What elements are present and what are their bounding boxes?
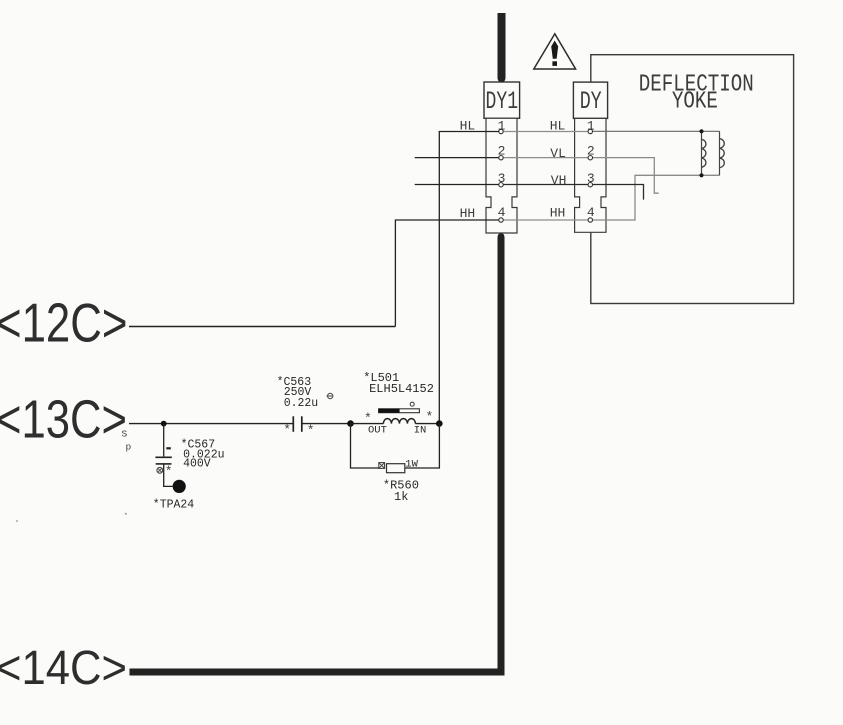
- node label 12C: [0, 291, 128, 353]
- svg-text:*: *: [283, 423, 291, 438]
- wire R560 branch: [351, 424, 440, 468]
- svg-text:OUT: OUT: [368, 425, 387, 437]
- wire HL from DY1 pin1 down to L501 IN: [439, 132, 501, 424]
- wire VH stub left of DY1: [415, 184, 501, 186]
- DY1 pin 4: [498, 205, 506, 222]
- DY pin 3: [587, 171, 595, 187]
- svg-text:VH: VH: [551, 173, 567, 188]
- label VH left of DY: [551, 173, 567, 188]
- DY1 pin 3: [498, 171, 506, 187]
- inductor L501: [351, 402, 420, 423]
- svg-text:ELH5L4152: ELH5L4152: [369, 382, 434, 396]
- DY1 pin 2: [498, 144, 506, 160]
- label HH left of DY: [550, 205, 566, 220]
- capacitor C567: [155, 448, 172, 479]
- svg-text:S: S: [122, 429, 128, 440]
- warning symbol: [534, 34, 576, 69]
- DY pin 4: [587, 205, 595, 222]
- svg-text:DY1: DY1: [486, 87, 519, 116]
- wire VL stub left of DY1: [415, 157, 501, 159]
- capacitor C563: [283, 416, 314, 438]
- node junction L501 IN / HL: [436, 420, 443, 427]
- wire HH from DY1 pin4 down to 12C: [395, 220, 501, 327]
- label VL left of DY: [550, 146, 566, 161]
- svg-text:1W: 1W: [405, 458, 418, 470]
- svg-text:*: *: [307, 423, 315, 438]
- svg-text:*: *: [364, 411, 372, 426]
- svg-text:400V: 400V: [183, 458, 211, 471]
- polarity symbol near C563: [327, 393, 334, 398]
- svg-text:VL: VL: [550, 146, 566, 161]
- label TPA24: [153, 499, 195, 512]
- node label 13C: [0, 391, 127, 450]
- svg-text:YOKE: YOKE: [672, 89, 718, 116]
- svg-text:<13C>: <13C>: [0, 391, 127, 450]
- label DEFLECTION YOKE: [639, 72, 754, 116]
- node label 14C: [0, 641, 127, 695]
- wire row4 HH: DY1 pin4 to DY pin4: [501, 219, 590, 221]
- wire 12C: [129, 326, 395, 328]
- bus thick wire top (to DY1): [498, 13, 506, 82]
- test point TPA24: [173, 480, 186, 493]
- wire C567 branch: [164, 424, 173, 487]
- wire yoke coils bottom to DY pin4 (HH): [590, 175, 719, 220]
- label C563 values: [277, 376, 319, 410]
- wire row2 VL: DY1 pin2 to DY pin2: [501, 157, 590, 159]
- svg-text:DY: DY: [580, 87, 602, 116]
- DY1 pin 1: [498, 119, 506, 134]
- resistor R560: [379, 463, 405, 473]
- svg-text:HL: HL: [460, 118, 476, 133]
- connector DY1 body: [484, 82, 520, 233]
- svg-text:p: p: [126, 442, 132, 453]
- yoke coil right: [720, 131, 725, 175]
- svg-text:HH: HH: [460, 206, 476, 221]
- wire 13C main: [129, 423, 439, 425]
- label L501: [363, 371, 434, 437]
- bus 14C thick wire: [130, 233, 505, 672]
- svg-text:HH: HH: [550, 205, 566, 220]
- wire row3 VH: DY1 pin3 to DY pin3: [501, 184, 590, 186]
- svg-text:<12C>: <12C>: [0, 291, 128, 353]
- label C567 values: [181, 439, 225, 471]
- label R560: [383, 458, 419, 504]
- wire DY pin2 stub with hook (VL): [590, 158, 658, 194]
- yoke coil left: [702, 131, 706, 175]
- svg-text:*TPA24: *TPA24: [153, 499, 195, 512]
- label HH left of DY1: [460, 206, 476, 221]
- wire DY pin3 stub (VH): [590, 185, 643, 200]
- DY pin 1: [587, 119, 595, 134]
- node coil top junction: [699, 129, 703, 133]
- svg-text:HL: HL: [550, 118, 566, 133]
- svg-text:*: *: [426, 410, 434, 425]
- svg-text:*: *: [165, 464, 173, 479]
- svg-text:<14C>: <14C>: [0, 641, 127, 695]
- node junction 13C left: [161, 421, 167, 427]
- svg-text:IN: IN: [414, 425, 427, 437]
- wire DY pin1 to yoke coils top: [590, 130, 719, 132]
- svg-text:0.22u: 0.22u: [284, 397, 319, 410]
- wire row1 HL: DY1 pin1 to DY pin1: [501, 131, 590, 133]
- node coil bottom junction: [699, 173, 703, 177]
- connector DY body: [573, 82, 607, 232]
- label HL left of DY: [550, 118, 566, 133]
- DY pin 2: [587, 144, 595, 160]
- deflection yoke box: [591, 55, 794, 304]
- node junction L501 OUT: [347, 420, 354, 427]
- label HL left of DY1: [460, 118, 476, 133]
- small cutoff text fragments: [16, 429, 132, 523]
- svg-text:1k: 1k: [394, 490, 408, 504]
